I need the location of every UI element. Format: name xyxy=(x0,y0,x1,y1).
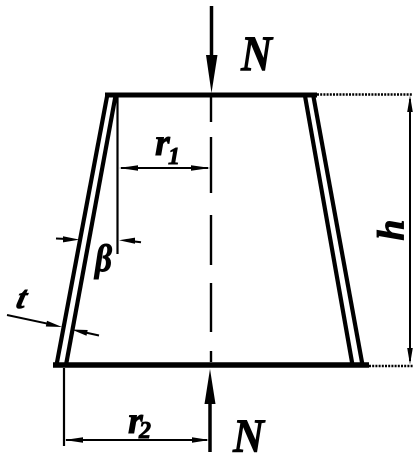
label r2 xyxy=(128,400,151,444)
extension line h (top) xyxy=(317,93,412,95)
force arrow N (bottom) xyxy=(205,369,216,452)
svg-text:N: N xyxy=(240,25,273,81)
left wall outer line xyxy=(57,94,108,365)
label r1 xyxy=(155,122,180,170)
dimension r2 xyxy=(65,437,210,442)
right wall inner line xyxy=(305,96,353,365)
svg-text:1: 1 xyxy=(168,144,180,170)
bottom edge xyxy=(53,362,369,368)
svg-text:t: t xyxy=(13,280,32,315)
leader arrow t (right) xyxy=(72,330,100,336)
dimension r1 xyxy=(119,165,211,171)
leader arrow t (left) xyxy=(7,315,62,327)
extension line h (bottom) xyxy=(369,365,413,367)
top edge xyxy=(105,93,317,98)
svg-text:β: β xyxy=(93,238,112,280)
svg-text:h: h xyxy=(371,219,413,240)
svg-text:2: 2 xyxy=(138,418,151,444)
extension line r2 (vertical, below bottom-left corner) xyxy=(63,368,65,446)
centerline (dash-dot axis) xyxy=(210,96,212,362)
svg-text:N: N xyxy=(232,410,266,463)
right wall outer line xyxy=(313,94,363,365)
dimension beta (right arrow) xyxy=(119,238,141,244)
label t xyxy=(13,280,32,315)
force arrow N (top) xyxy=(206,6,218,93)
dimension beta (left arrow) xyxy=(56,236,80,242)
left wall inner line xyxy=(66,96,116,365)
extension line r1 / beta (vertical, from top-left corner) xyxy=(116,96,118,254)
dimension line h xyxy=(407,96,413,365)
